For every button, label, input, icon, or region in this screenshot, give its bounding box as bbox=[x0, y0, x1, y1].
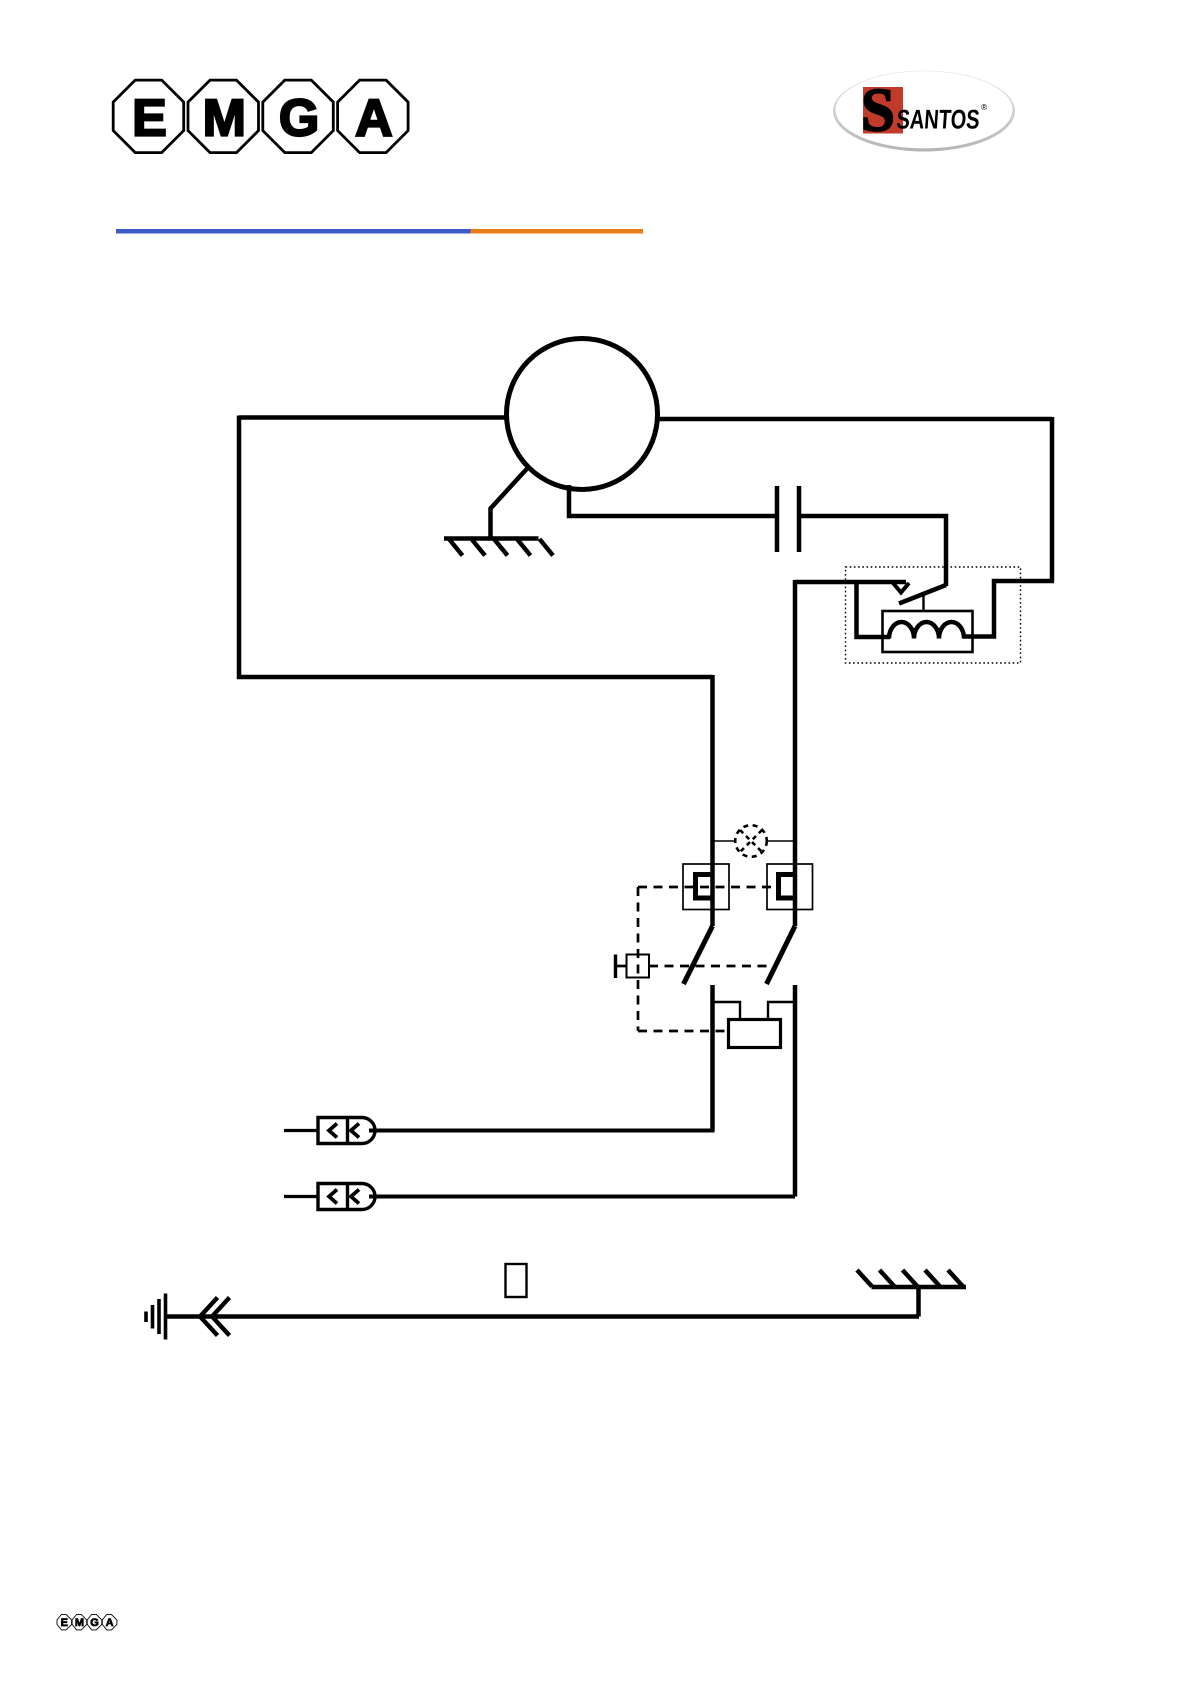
wire fixed contact F1 bbox=[795, 580, 906, 585]
svg-text:A: A bbox=[106, 1617, 114, 1629]
blade link F1 bbox=[922, 595, 924, 612]
connector X2 bbox=[318, 1184, 375, 1210]
push button S1 bbox=[616, 955, 650, 979]
connector X1 bbox=[318, 1118, 375, 1144]
svg-text:E: E bbox=[132, 90, 167, 148]
blade K1 bbox=[684, 926, 713, 984]
linkage dashed button to blades bbox=[649, 965, 776, 968]
chevrons left bbox=[200, 1298, 230, 1336]
capacitor C1 bbox=[777, 486, 799, 552]
linkage dashed upper bbox=[638, 886, 778, 889]
chassis symbol left bbox=[146, 1294, 166, 1340]
coil KM1 bbox=[729, 1020, 781, 1048]
header underline orange bbox=[471, 229, 644, 234]
coil KM1 connections bbox=[713, 1002, 741, 1020]
wire capacitor to relay blade bbox=[799, 516, 946, 586]
contact K2 box bbox=[767, 864, 813, 910]
ground right bbox=[857, 1270, 966, 1317]
EMGA logo top-left bbox=[113, 80, 408, 153]
svg-text:M: M bbox=[203, 90, 246, 148]
contact K2 bracket bbox=[779, 875, 797, 899]
wire motor-right top bbox=[657, 417, 1052, 422]
contact notch F1 bbox=[893, 583, 909, 593]
heater box F1 bbox=[883, 611, 973, 652]
svg-text:®: ® bbox=[981, 102, 988, 112]
contact K1 bracket bbox=[696, 875, 714, 899]
thermal overload F1 dotted enclosure bbox=[846, 567, 1021, 663]
motor M1 bbox=[507, 339, 658, 490]
ground motor bbox=[444, 467, 553, 556]
wire K2 lower bbox=[793, 985, 798, 1197]
SANTOS logo top-right bbox=[833, 71, 1015, 152]
earth rail bbox=[164, 1314, 919, 1319]
linkage dashed to coil bbox=[638, 1030, 728, 1033]
wire right loop vertical bbox=[1050, 417, 1055, 581]
fuse symbol bbox=[506, 1264, 527, 1297]
header underline blue bbox=[116, 229, 471, 234]
wire X1 to K1 bbox=[369, 1128, 713, 1131]
svg-text:G: G bbox=[279, 90, 319, 148]
connector X2 lead bbox=[284, 1195, 318, 1198]
svg-text:A: A bbox=[355, 90, 393, 148]
svg-text:SANTOS: SANTOS bbox=[896, 105, 981, 135]
EMGA logo bottom-left bbox=[57, 1614, 117, 1630]
blade K2 bbox=[767, 926, 796, 984]
wire down to contact K1 bbox=[710, 675, 715, 926]
wire motor-bottom to capacitor bbox=[569, 485, 777, 516]
linkage dashed vertical bbox=[637, 887, 640, 1031]
svg-text:S: S bbox=[861, 78, 895, 145]
wire left loop bottom bbox=[237, 675, 713, 680]
wire X2 to K2 bbox=[369, 1195, 795, 1199]
wire right loop to relay bbox=[963, 581, 1054, 637]
svg-text:E: E bbox=[61, 1617, 68, 1629]
wire left loop vertical bbox=[237, 416, 242, 680]
wire motor-left to loop bbox=[239, 415, 507, 420]
wire right bus down from F1 bbox=[793, 580, 798, 926]
contact K1 box bbox=[683, 864, 729, 910]
heater element F1 bbox=[889, 622, 964, 638]
wire K1 lower bbox=[710, 985, 715, 1131]
svg-text:G: G bbox=[90, 1617, 99, 1629]
wire heater left leg bbox=[857, 582, 891, 637]
connector X1 lead bbox=[284, 1129, 318, 1132]
lamp H1 bbox=[713, 825, 794, 857]
svg-text:M: M bbox=[75, 1617, 84, 1629]
blade F1 bbox=[899, 585, 946, 604]
